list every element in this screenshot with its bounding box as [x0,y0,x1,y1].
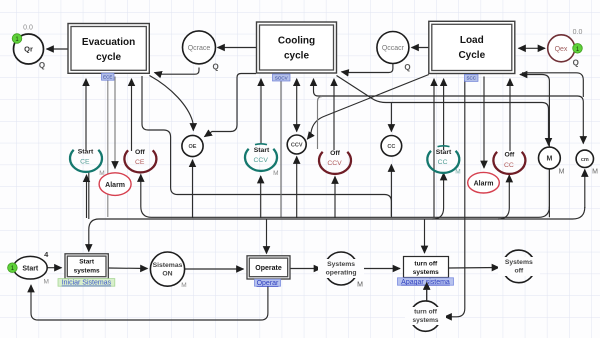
wire Start CE from bus [86,175,88,218]
svg-text:Q: Q [39,61,45,70]
svg-text:M: M [357,282,363,289]
label Apagar sistema [398,278,454,286]
svg-text:Evacuation: Evacuation [82,37,135,48]
wire Operate to Systems operating [290,268,321,270]
place cm [576,150,598,175]
svg-text:OE: OE [189,144,197,150]
svg-text:CC: CC [387,144,395,150]
wire stub near Off CCV [318,97,323,150]
svg-text:Q: Q [212,63,218,72]
arc Start CCV [245,144,279,177]
svg-text:Q: Q [573,59,579,68]
svg-text:0.0: 0.0 [573,29,583,36]
wire Start CC from bus corner [433,173,444,219]
wire Evacuation label down to Alarm1 [107,80,109,217]
wire Load label down to place turn off systems [445,80,465,317]
wire Evacuation diagonal to place OE [150,76,194,131]
svg-text:Off: Off [330,150,341,157]
wire Cooling label down [280,80,282,217]
wire Qccacr down-left into Cooling box [342,64,393,73]
svg-text:Qcrace: Qcrace [188,45,211,52]
label Iniciar Sistemas [58,279,115,287]
wire nested corner to cm column [522,73,583,97]
svg-text:M: M [181,282,186,289]
place Systems operating [318,252,364,289]
transition T6 turn off systems [404,257,449,278]
wire OE bottom to bus [192,160,194,218]
wire T3 Load to place Qex bidirectional [519,47,532,49]
transition T3 Load Cycle [429,21,515,73]
svg-text:CC: CC [438,159,448,166]
token on Qex [573,44,583,54]
svg-text:CCV: CCV [254,157,269,164]
main bus line B to Off CE [141,175,550,218]
place M [539,147,565,175]
transition T1 Evacuation cycle [68,24,149,74]
svg-text:CC: CC [504,162,514,169]
transition T2 Cooling cycle [257,22,337,73]
svg-text:M: M [273,170,278,177]
svg-text:Systems: Systems [505,259,533,266]
place Start [13,250,49,286]
svg-text:Load: Load [460,35,484,46]
wire Off CC up into Load [509,79,511,151]
place turn off systems [405,301,446,331]
svg-text:Off: Off [135,149,146,156]
place CCV [287,135,306,154]
svg-text:M: M [43,279,48,286]
place Qr [14,25,46,71]
svg-text:Iniciar Sistemas: Iniciar Sistemas [62,280,112,287]
place OE [182,135,203,156]
wire Off CE up into Evacuation [131,79,133,151]
svg-text:ECE: ECE [103,75,112,80]
svg-text:Systems: Systems [327,261,355,268]
svg-text:M: M [99,170,104,177]
wire Start CCV up into Cooling [260,79,262,143]
wire Cooling and CCV bidirectional [296,79,298,132]
wire right horizontal into Cooling box [314,79,584,144]
wire CCV bottom from bus [296,157,298,219]
arc Off CC [493,152,525,174]
svg-text:CCV: CCV [291,143,303,149]
wire bus up into Load box [433,79,435,217]
wire Start CCV from bus [260,176,262,218]
wire Cooling box corner diagonal to place M [337,76,549,146]
svg-text:M: M [592,169,598,176]
place Sistemas ON [150,252,186,289]
place Alarm1 [99,170,131,195]
arc Start CE [70,148,102,172]
wire Start CE up into Evacuation [85,79,87,151]
wire CC bottom from bus [390,165,392,218]
arc Off CE [124,149,156,172]
tag under T3 [465,74,479,81]
svg-text:cycle: cycle [284,51,309,62]
wire turn off systems to Systems off [449,267,499,270]
place Qcrace [183,31,219,72]
svg-text:Q: Q [404,63,410,72]
svg-text:Qccacr: Qccacr [382,45,405,52]
wire Start systems to Sistemas ON [109,267,148,270]
svg-text:ON: ON [162,271,172,278]
svg-text:M: M [546,156,552,163]
wire down into place CC top [390,103,392,132]
place Alarm2 [468,172,500,193]
svg-text:0.0: 0.0 [23,25,33,32]
svg-text:Start: Start [22,265,39,272]
svg-text:Sistemas: Sistemas [153,262,183,269]
svg-text:SCC: SCC [466,76,476,81]
token on Qr [12,34,22,44]
transition T4 Start systems [65,254,108,279]
svg-text:operating: operating [326,270,357,277]
wire Sistemas ON to Operate [185,268,244,270]
svg-text:systems: systems [74,268,100,275]
wire Off CCV from bus [334,177,336,219]
wire Off CCV up into Cooling [333,79,335,150]
svg-text:turn off: turn off [414,309,438,316]
place CC [381,136,402,157]
svg-text:Qex: Qex [555,46,568,53]
svg-text:Cycle: Cycle [458,50,485,61]
svg-text:cm: cm [581,157,589,163]
wire Evacuation down around to CC bottom [142,76,391,216]
svg-text:M: M [559,169,565,176]
wire T1 Evacuation to place Qr [47,48,69,50]
wire stub at Start systems corner [88,172,90,219]
wire Start to Start systems [47,267,61,269]
svg-text:Cooling: Cooling [278,36,315,47]
wire cm bottom feeder [584,170,586,209]
svg-text:Start: Start [78,148,94,155]
svg-text:Alarm: Alarm [105,182,125,189]
svg-text:Operar: Operar [257,280,279,287]
wire Cooling left-bottom around to OE right side [205,74,257,137]
wire Load down to Alarm2 [483,77,485,169]
svg-text:Qr: Qr [24,45,33,54]
transition T5 Operate [247,256,290,279]
place Qex [548,29,583,68]
svg-text:off: off [514,268,523,275]
wire bus down into turn off systems box [424,219,426,253]
wire Qcrace down-left into Evacuation box [155,68,200,75]
tag under T1 [102,73,115,80]
wire M bottom column [548,169,550,208]
svg-text:Start: Start [254,147,270,154]
svg-text:Start: Start [79,259,95,266]
wire Off CC from bus corner [498,175,509,219]
svg-text:Operate: Operate [255,265,282,272]
place Systems off [498,250,540,283]
place Qccacr [377,32,411,73]
svg-text:cycle: cycle [96,52,121,63]
svg-text:systems: systems [413,269,439,276]
wire T2 Cooling to place Qcrace [218,47,257,49]
tag under T2 [273,74,291,81]
svg-text:CE: CE [135,159,145,166]
wire bus down into Operate [266,219,268,254]
wire place turn off systems up into box (overlay) [426,283,428,301]
arc Off CCV [319,150,351,174]
wire bottom loop Operate to Start [31,280,268,321]
svg-text:systems: systems [412,317,438,324]
svg-text:turn off: turn off [414,261,438,268]
wire T3 Load to place Qccacr [412,47,429,49]
svg-text:CCV: CCV [327,160,342,167]
arc Start CC [427,146,460,176]
label Operar [255,279,281,287]
token on Start [8,263,18,273]
wire from bus up left into Load box right-bottom [520,75,549,218]
svg-text:Apagar sistema: Apagar sistema [401,279,450,286]
main bus line A to Start systems [89,207,585,252]
svg-text:Alarm: Alarm [474,180,494,187]
wire place turn off systems up into box [426,283,428,301]
svg-text:Off: Off [504,152,515,159]
wire Start CC up into Load [443,79,445,150]
svg-text:SOCV: SOCV [275,75,288,80]
wire Load diagonal to CCV right [307,75,429,140]
svg-text:Start: Start [436,149,452,156]
wire Systems operating to turn off systems [358,268,400,270]
svg-text:M: M [455,169,460,176]
svg-text:CE: CE [80,159,90,166]
